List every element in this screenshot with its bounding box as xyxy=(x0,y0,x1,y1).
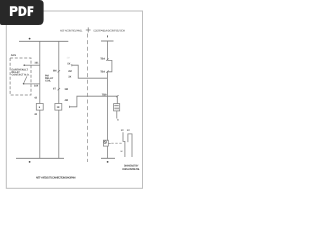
panel divider dashed line xyxy=(87,34,89,163)
wire: left top supply bus xyxy=(19,40,68,42)
connector slash TB4-2 xyxy=(106,71,108,73)
device U2 box xyxy=(114,104,120,111)
svg-text:TB4: TB4 xyxy=(100,70,105,73)
svg-text:164: 164 xyxy=(34,85,39,88)
PDF badge xyxy=(0,0,44,25)
wire 161 xyxy=(24,64,40,66)
contact K1 terminal upper xyxy=(24,64,26,66)
svg-text:2M: 2M xyxy=(68,70,71,73)
node marker below bottom bus xyxy=(29,161,31,163)
svg-text:EDS 3T PANEL AND CONTROL ROOM: EDS 3T PANEL AND CONTROL ROOM xyxy=(94,30,126,33)
svg-text:1M: 1M xyxy=(67,57,70,60)
interpanel wire A xyxy=(72,65,108,78)
svg-text:TB4: TB4 xyxy=(100,57,105,60)
svg-text:1V: 1V xyxy=(127,129,130,132)
device U2 label xyxy=(114,105,118,106)
svg-text:4M: 4M xyxy=(65,99,68,102)
meter M1 box xyxy=(103,140,108,146)
label above right bar xyxy=(106,35,109,37)
terminal block TB2 xyxy=(55,104,62,111)
indicator device 1V lead xyxy=(128,134,132,157)
connector slash on bus 2 upper xyxy=(58,70,60,72)
meter M1 glyph xyxy=(104,141,107,144)
svg-text:8T: 8T xyxy=(53,87,56,90)
dashed link to indicators xyxy=(111,142,123,144)
svg-text:W: W xyxy=(121,150,123,153)
svg-text:A: A xyxy=(117,118,119,121)
wire 164 xyxy=(24,83,40,85)
wire: vertical bus 1 xyxy=(39,41,41,103)
wire: branch to device U2 xyxy=(116,96,118,103)
svg-text:8M: 8M xyxy=(53,69,56,72)
svg-text:3X: 3X xyxy=(68,76,71,79)
svg-text:161: 161 xyxy=(34,62,39,65)
svg-text:TB9: TB9 xyxy=(102,94,107,97)
relay K1 enclosure (dashed) xyxy=(10,58,31,95)
wire: vertical bus 2 xyxy=(58,41,60,103)
svg-text:DN IT-A CNTRL PNL: DN IT-A CNTRL PNL xyxy=(122,168,140,171)
terminal loop bracket xyxy=(108,60,112,71)
node marker below right bar xyxy=(107,161,109,163)
connector slash wire B end xyxy=(116,95,118,97)
wire: vertical bus 2 lower xyxy=(58,110,60,158)
node marker on top bus xyxy=(29,38,31,40)
header panel boundary cross symbol xyxy=(86,27,91,32)
core label column xyxy=(65,62,72,101)
device U2 internal bar xyxy=(114,108,119,110)
svg-text:CONTACT N.O.: CONTACT N.O. xyxy=(12,74,30,77)
svg-text:1C: 1C xyxy=(121,129,124,132)
meter M1 stub xyxy=(108,142,110,144)
interpanel wire A tick xyxy=(71,64,73,66)
note text right xyxy=(122,164,140,171)
wire: left bottom return bus xyxy=(16,157,64,159)
contact K1 blade xyxy=(24,76,27,83)
connector slash TB4-1 xyxy=(106,59,108,61)
svg-text:MST - A CONTROL PANEL: MST - A CONTROL PANEL xyxy=(60,30,83,33)
svg-text:COIL: COIL xyxy=(45,79,51,82)
svg-text:AFS: AFS xyxy=(11,54,16,57)
terminal block TB1 xyxy=(36,104,43,111)
label: EARTHFAULT RELAY CONTACT N.O. xyxy=(12,69,30,77)
wire: right bus main xyxy=(106,72,108,141)
PDF badge text xyxy=(10,6,34,16)
svg-text:NET - A / EDS-3T CONNECTION DI: NET - A / EDS-3T CONNECTION DIAGRAM xyxy=(36,177,76,180)
relay coil PM label xyxy=(45,74,54,82)
wire: vertical bus 1 lower xyxy=(39,110,41,158)
interpanel wire B xyxy=(69,96,117,107)
wire: right top terminal bar xyxy=(101,40,114,42)
contact K1 terminal lower xyxy=(23,83,25,85)
page sheet xyxy=(6,11,142,188)
wire below U2 xyxy=(116,111,118,119)
svg-text:3M: 3M xyxy=(65,88,68,91)
wire: right bus lower xyxy=(106,146,108,158)
interpanel wire B tick xyxy=(68,106,70,108)
indicator device 1C lead xyxy=(123,132,125,157)
wire: right bottom bar xyxy=(101,157,115,159)
wire: right bus upper xyxy=(106,41,108,60)
connector slash on bus 2 lower xyxy=(58,88,60,90)
svg-text:5X: 5X xyxy=(67,62,70,65)
